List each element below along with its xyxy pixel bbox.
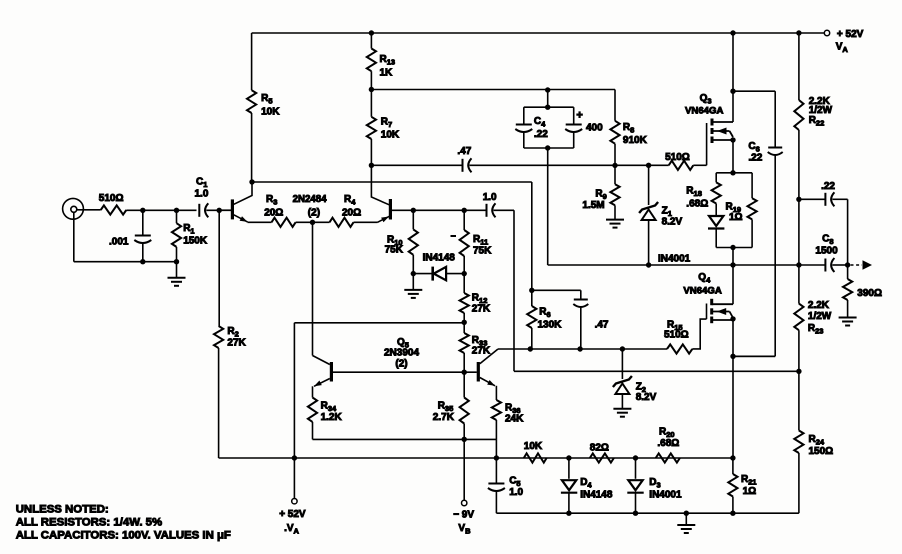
svg-text:1.0: 1.0: [195, 189, 209, 200]
svg-text:910K: 910K: [623, 135, 648, 146]
svg-text:24K: 24K: [505, 414, 524, 425]
svg-text:1Ω: 1Ω: [743, 486, 757, 497]
svg-text:150Ω: 150Ω: [809, 446, 834, 457]
svg-text:75K: 75K: [385, 245, 404, 256]
svg-text:8.2V: 8.2V: [636, 392, 657, 403]
svg-text:.47: .47: [457, 146, 471, 157]
svg-text:UNLESS NOTED:: UNLESS NOTED:: [16, 504, 109, 516]
svg-text:150K: 150K: [183, 236, 208, 247]
svg-text:IN4148: IN4148: [423, 253, 456, 264]
svg-text:1.0: 1.0: [509, 487, 523, 498]
svg-text:20Ω: 20Ω: [264, 208, 283, 219]
svg-text:− 9V: − 9V: [453, 510, 474, 521]
svg-text:.22: .22: [534, 129, 548, 140]
svg-text:VN64GA: VN64GA: [683, 286, 721, 297]
svg-text:10K: 10K: [381, 130, 400, 141]
svg-text:.47: .47: [595, 320, 609, 331]
svg-text:2.7K: 2.7K: [433, 412, 455, 423]
svg-text:10K: 10K: [524, 441, 543, 452]
svg-text:27K: 27K: [472, 304, 491, 315]
svg-text:IN4148: IN4148: [580, 490, 613, 501]
svg-text:+: +: [576, 110, 582, 122]
svg-text:10K: 10K: [261, 107, 280, 118]
svg-text:390Ω: 390Ω: [857, 288, 882, 299]
svg-text:+ 52V: + 52V: [279, 509, 306, 520]
svg-text:ALL CAPACITORS: 100V. VALUES: ALL CAPACITORS: 100V. VALUES IN μF: [16, 530, 231, 542]
svg-text:510Ω: 510Ω: [665, 152, 690, 163]
svg-text:2N2484: 2N2484: [293, 194, 328, 205]
svg-text:IN4001: IN4001: [649, 490, 682, 501]
svg-text:+ 52V: + 52V: [837, 29, 864, 40]
svg-text:1500: 1500: [815, 246, 838, 257]
svg-text:510Ω: 510Ω: [99, 193, 124, 204]
svg-text:2.2K: 2.2K: [808, 300, 830, 311]
svg-text:27K: 27K: [227, 338, 246, 349]
svg-text:.68Ω: .68Ω: [657, 438, 679, 449]
svg-text:27K: 27K: [472, 346, 491, 357]
svg-text:1Ω: 1Ω: [729, 212, 743, 223]
svg-text:VN64GA: VN64GA: [685, 106, 723, 117]
svg-text:.22: .22: [748, 153, 762, 164]
svg-text:1.5M: 1.5M: [582, 200, 604, 211]
svg-text:82Ω: 82Ω: [590, 443, 609, 454]
svg-text:ALL RESISTORS: 1/4W. 5%: ALL RESISTORS: 1/4W. 5%: [16, 517, 162, 529]
svg-text:(2): (2): [395, 359, 407, 370]
svg-text:1/2W: 1/2W: [808, 311, 832, 322]
svg-text:1.2K: 1.2K: [321, 412, 343, 423]
svg-text:.68Ω: .68Ω: [686, 199, 708, 210]
svg-text:400: 400: [586, 123, 603, 134]
svg-text:130K: 130K: [538, 320, 563, 331]
svg-text:1K: 1K: [380, 68, 394, 79]
svg-text:IN4001: IN4001: [658, 254, 691, 265]
svg-text:(2): (2): [308, 208, 320, 219]
svg-text:1.0: 1.0: [483, 192, 497, 203]
svg-text:510Ω: 510Ω: [664, 330, 689, 341]
svg-text:8.2V: 8.2V: [662, 217, 683, 228]
svg-text:75K: 75K: [473, 246, 492, 257]
svg-text:.22: .22: [821, 181, 835, 192]
svg-text:2N3904: 2N3904: [384, 348, 419, 359]
svg-text:.001: .001: [109, 237, 129, 248]
svg-text:20Ω: 20Ω: [342, 208, 361, 219]
